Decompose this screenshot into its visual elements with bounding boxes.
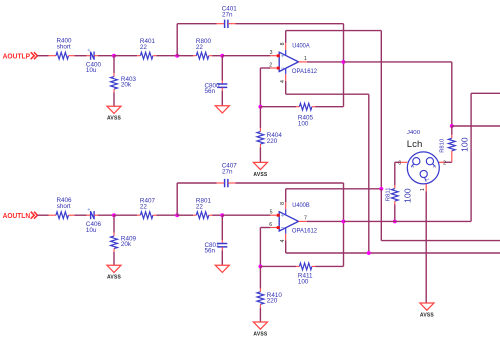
wire node to R405 (260, 106, 296, 108)
svg-text:AVSS: AVSS (253, 331, 268, 337)
capacitor C400 (86, 49, 102, 74)
svg-text:2: 2 (443, 160, 446, 166)
wire node A2 to R800 (177, 55, 193, 57)
resistor R811 (386, 187, 413, 204)
ground AVSS under R403 (107, 106, 121, 113)
svg-text:20k: 20k (121, 241, 132, 248)
resistor R801 (196, 198, 212, 219)
resistor R403 (111, 76, 137, 93)
wire R810 to XLR pin 2 (444, 161, 451, 163)
op-amp U400A triangle (277, 52, 299, 71)
wire C400 to node A1 (94, 55, 98, 57)
node B1 junction (112, 213, 116, 217)
svg-text:100: 100 (298, 278, 309, 285)
node R405-R404 junction (258, 105, 262, 109)
svg-text:AVSS: AVSS (107, 275, 122, 281)
node B2 junction (175, 213, 179, 217)
wire R811 to U400B output row (394, 205, 396, 222)
resistor R411 (298, 263, 315, 285)
resistor R406 (56, 197, 74, 219)
wire R410 node down to R410 (259, 266, 261, 288)
wire R405 to feedback riser (315, 106, 343, 108)
svg-text:U400B: U400B (292, 203, 310, 209)
wire R403 to ground (113, 93, 115, 107)
node R811 output junction (393, 219, 397, 223)
wire pin2 node down to R405 node (259, 68, 261, 107)
resistor R410 (257, 292, 282, 308)
wire C800 to ground (221, 88, 223, 91)
ground AVSS under R410 (253, 322, 267, 329)
svg-text:3: 3 (270, 50, 273, 56)
svg-text:AVSS: AVSS (420, 312, 435, 318)
wire node A1 down to R403 (113, 56, 115, 73)
wire node B3 down to C801 (221, 215, 223, 240)
wire node A2 up to C401 row (176, 24, 178, 56)
pin 1 stub U400A output (299, 61, 307, 63)
wire R404 to ground (259, 148, 261, 163)
svg-text:1: 1 (420, 188, 426, 191)
wire feedback riser down to output node A (343, 24, 345, 62)
wire C407 row left segment (177, 182, 216, 184)
capacitor C801 (205, 242, 228, 255)
ground AVSS under R404 (253, 162, 267, 169)
node R411-R410 junction (258, 264, 262, 268)
wire R401 to node A2 (156, 55, 177, 57)
svg-text:5: 5 (270, 210, 273, 216)
svg-text:OPA1612: OPA1612 (292, 228, 318, 234)
wire R404 node down to R404 (259, 107, 261, 129)
wire R410 to ground (259, 308, 261, 322)
pin 7 stub U400B output (299, 220, 307, 222)
resistor R400 (56, 38, 74, 60)
right riser to right edge (471, 92, 500, 94)
svg-text:AVSS: AVSS (107, 116, 122, 122)
svg-text:22: 22 (196, 204, 204, 211)
V+ rail right side down to U400B frame (380, 31, 382, 189)
wire C406 to node B1 (94, 214, 98, 216)
resistor R401 (140, 38, 156, 59)
svg-text:AVSS: AVSS (253, 172, 268, 178)
svg-text:56n: 56n (205, 248, 216, 255)
wire R800 to node A3 (212, 55, 222, 57)
ground under C801 (215, 265, 229, 272)
svg-text:56n: 56n (205, 88, 216, 95)
svg-text:10u: 10u (86, 67, 97, 74)
node A1 junction (112, 54, 116, 58)
right riser up (470, 93, 472, 221)
V+ rail down right side (380, 189, 382, 241)
svg-text:100: 100 (403, 188, 413, 203)
svg-text:3: 3 (398, 160, 401, 166)
svg-text:8: 8 (280, 42, 286, 45)
resistor R810 (439, 137, 469, 162)
V- rail right side down to U400B frame bottom (368, 94, 370, 253)
capacitor C401 (222, 5, 238, 28)
wire R810 node to right edge (452, 125, 500, 127)
wire C401 to feedback riser (228, 23, 235, 25)
pin 4 stub U400B (285, 228, 287, 234)
wire node to R411 (260, 265, 296, 267)
wire C407 to feedback riser B (228, 182, 235, 184)
resistor R405 (298, 103, 315, 127)
op-amp U400A power frame top (286, 30, 382, 32)
op-amp U400B power frame bottom to right edge (286, 252, 500, 254)
wire AOUTLN to R406 (38, 214, 49, 216)
svg-text:2: 2 (269, 62, 272, 68)
V+ rail to right edge (381, 240, 500, 242)
wire node B2 to R801 (177, 214, 193, 216)
node V+ rail junction at U400B frame (379, 187, 383, 191)
wire pin6 node down to R411 node (259, 228, 261, 267)
pin 4 stub U400A (285, 68, 287, 74)
capacitor C406 (86, 208, 102, 234)
ground AVSS under XLR pin 1 (420, 303, 434, 310)
wire output node B to R811 node (344, 220, 395, 222)
svg-text:1: 1 (304, 56, 307, 62)
op-amp U400B triangle (277, 212, 299, 231)
ground under C800 (215, 106, 229, 113)
wire R801 to node B3 (212, 214, 222, 216)
svg-text:22: 22 (196, 44, 204, 51)
op-amp U400B power frame top (286, 188, 382, 190)
wire U400A output to node (307, 61, 344, 63)
node A3 junction (220, 54, 224, 58)
node B3 junction (220, 213, 224, 217)
resistor R409 (111, 235, 137, 252)
svg-text:short: short (57, 203, 71, 210)
wire XLR pin 3 to R811 column (400, 161, 407, 163)
ground AVSS under R409 (107, 265, 121, 272)
svg-text:22: 22 (140, 204, 148, 211)
svg-text:U400A: U400A (292, 44, 310, 50)
resistor R404 (257, 132, 282, 148)
wire R811 column down to R811 (394, 162, 396, 185)
capacitor C407 (222, 163, 238, 188)
svg-text:J400: J400 (407, 130, 420, 136)
wire R406 to C406 (74, 214, 86, 216)
svg-text:4: 4 (280, 240, 286, 243)
svg-text:220: 220 (267, 298, 278, 305)
capacitor C800 (205, 82, 228, 95)
svg-text:27n: 27n (222, 11, 233, 18)
node A2 junction (175, 54, 179, 58)
svg-text:short: short (57, 44, 71, 51)
node V- rail junction at U400B frame bottom (367, 251, 371, 255)
port AOUTLP (3, 52, 38, 60)
svg-text:OPA1612: OPA1612 (292, 69, 318, 75)
wire R810 node down to R810 (451, 126, 453, 135)
wire C401 row left segment (177, 23, 216, 25)
wire R411 to feedback riser B (315, 265, 343, 267)
svg-text:Lch: Lch (407, 139, 423, 149)
resistor R800 (196, 38, 212, 59)
wire R811 node to right riser (395, 220, 471, 222)
svg-text:20k: 20k (121, 82, 132, 89)
wire R407 to node B2 (156, 214, 177, 216)
node U400A output junction (342, 60, 346, 64)
wire output node to right column (344, 61, 452, 63)
wire inverting input pin 6 of U400B (260, 227, 270, 229)
svg-text:AOUTLP: AOUTLP (3, 53, 31, 60)
svg-text:220: 220 (267, 138, 278, 145)
wire node B1 to R407 (114, 214, 137, 216)
svg-text:7: 7 (304, 215, 307, 221)
svg-text:100: 100 (460, 137, 470, 152)
pin 8 stub U400A (285, 31, 287, 43)
pin 8 stub U400B (285, 189, 287, 203)
node R810 top junction (450, 124, 454, 128)
svg-text:R810: R810 (439, 139, 445, 153)
wire R400 to C400 (74, 55, 86, 57)
wire feedback riser B down to output node B (343, 183, 345, 221)
wire C801 to ground (221, 247, 223, 250)
svg-text:100: 100 (298, 120, 309, 127)
wire node B3 to op-amp pin 5 (222, 214, 270, 216)
svg-text:6: 6 (269, 222, 272, 228)
wire node B1 down to R409 (113, 215, 115, 233)
connector J400 XLR Lch (407, 152, 439, 184)
port AOUTLN (3, 212, 38, 220)
svg-text:4: 4 (280, 80, 286, 83)
wire AOUTLP to R400 (38, 55, 49, 57)
svg-text:22: 22 (140, 44, 148, 51)
svg-text:10u: 10u (86, 227, 97, 234)
wire XLR pin 1 down (425, 184, 427, 191)
node U400B output junction (342, 219, 346, 223)
resistor R407 (140, 198, 156, 219)
wire node A1 to R401 (114, 55, 137, 57)
svg-text:8: 8 (280, 202, 286, 205)
svg-text:R811: R811 (386, 187, 392, 201)
wire inverting input pin 2 of U400A (260, 67, 270, 69)
svg-text:AOUTLN: AOUTLN (3, 213, 31, 220)
op-amp U400A power frame bottom (286, 93, 369, 95)
svg-text:27n: 27n (222, 169, 233, 176)
wire node B2 up to C407 row (176, 183, 178, 215)
wire right column down to R810 node (451, 62, 453, 126)
wire node A3 to op-amp pin 3 (222, 55, 270, 57)
wire U400B output to node (307, 220, 344, 222)
wire R409 to ground (113, 252, 115, 265)
wire node A3 down to C800 (221, 56, 223, 81)
